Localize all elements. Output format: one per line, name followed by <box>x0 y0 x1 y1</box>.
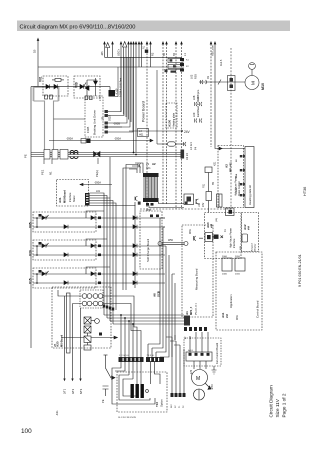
svg-text:-030A: -030A <box>66 137 73 141</box>
svg-text:-K1/-: -K1/- <box>55 410 59 416</box>
motor control A3 dashed box <box>218 146 244 208</box>
svg-text:0V: 0V <box>175 405 177 408</box>
svg-text:2016: 2016 <box>235 256 241 258</box>
svg-text:2B: 2B <box>53 344 57 347</box>
fan control board dashed box <box>184 338 221 366</box>
relay contact K1 <box>168 58 183 62</box>
svg-text:PE1: PE1 <box>41 169 45 175</box>
soft charge cable <box>158 242 162 246</box>
ribbon cable W30 <box>143 173 159 177</box>
svg-text:X1: X1 <box>224 228 227 232</box>
wires A31 to nest verticals <box>90 193 136 324</box>
rectifier V01 dashed box <box>43 76 68 96</box>
wires relay row1 <box>58 290 137 357</box>
svg-text:F01: F01 <box>203 183 206 188</box>
svg-text:L70: L70 <box>98 96 102 101</box>
svg-text:X2 24: X2 24 <box>185 153 189 160</box>
svg-text:-030A: -030A <box>94 181 101 185</box>
hollow arrowheads <box>106 43 110 48</box>
svg-text:A10: A10 <box>206 222 210 228</box>
control board dashed box <box>216 252 262 330</box>
relay pin marks <box>165 70 177 73</box>
relay K10 contacts dashed box <box>80 290 103 308</box>
svg-text:Size 11V: Size 11V <box>275 398 280 417</box>
gray bus trace <box>34 87 59 101</box>
svg-text:24V: 24V <box>184 130 191 134</box>
svg-text:B6A: B6A <box>235 173 238 178</box>
svg-text:24V: 24V <box>202 202 205 207</box>
svg-text:###: ### <box>226 313 229 318</box>
svg-text:Interface: Interface <box>233 238 236 248</box>
svg-text:-E70: -E70 <box>190 369 193 375</box>
svg-text:Earthfault 9' 2300: Earthfault 9' 2300 <box>196 96 200 117</box>
svg-text:B5: B5 <box>212 181 215 185</box>
svg-text:A100: A100 <box>168 119 172 127</box>
PE stub 3 <box>97 158 99 164</box>
plug pair on motor line <box>201 80 207 84</box>
terminal strip X1 <box>119 357 144 362</box>
terminal labels bottom left <box>63 388 84 394</box>
svg-text:W01: W01 <box>189 228 192 234</box>
svg-text:Board: Board <box>73 195 76 202</box>
wire 24V <box>129 130 182 132</box>
thermal switch above motor <box>249 63 256 70</box>
svg-text:A7: A7 <box>184 336 187 339</box>
relay block K01 <box>205 167 212 173</box>
wires ribbon bottom to connector <box>149 202 184 208</box>
svg-text:24V: 24V <box>171 404 173 408</box>
thyristor in V09 <box>80 84 84 88</box>
plug row X70 <box>171 393 186 397</box>
svg-text:K1: K1 <box>186 60 189 62</box>
svg-text:M10: M10 <box>261 83 265 90</box>
bottom labels under T10 <box>118 417 137 419</box>
wire bus y69.5 short <box>164 69 184 71</box>
resistor in V01 <box>55 79 61 82</box>
ground fan <box>212 366 217 374</box>
svg-text:Fan Control Board: Fan Control Board <box>215 342 219 364</box>
svg-text:A30_com: A30_com <box>211 45 215 56</box>
svg-text:Interface: Interface <box>69 192 72 202</box>
connector X13 <box>184 194 194 205</box>
fuse F3 on bus <box>60 150 68 160</box>
thyristor module row V10 <box>33 268 96 288</box>
wire supply x38 with arrow <box>37 41 39 87</box>
transistor in V09 <box>85 80 97 96</box>
wire -030A <box>49 140 150 142</box>
svg-text:B2: B2 <box>163 52 166 56</box>
cable mark slash <box>218 80 221 85</box>
svg-text:SCB: SCB <box>157 291 161 297</box>
svg-text:100: 100 <box>21 428 32 435</box>
bottom section <box>52 287 221 419</box>
fuse F2 on bus <box>52 150 58 160</box>
svg-text:Circuit diagram MX pro 6V90/11: Circuit diagram MX pro 6V90/110...8V160/… <box>20 25 136 31</box>
svg-text:V20: V20 <box>29 250 33 256</box>
wires braking pins to bundle <box>108 57 133 132</box>
aux contact boxes <box>84 317 91 324</box>
svg-text:Control Board: Control Board <box>256 300 260 318</box>
svg-text:K01: K01 <box>214 161 217 166</box>
svg-text:-M70: -M70 <box>211 384 214 390</box>
wire bus y57.3 <box>105 56 182 58</box>
svg-text:V15: V15 <box>29 278 33 284</box>
motor connector X <box>228 76 236 91</box>
fuse F70 <box>217 194 223 207</box>
svg-text:(19): (19) <box>216 218 218 222</box>
svg-text:W50: W50 <box>168 239 174 242</box>
row output pins <box>98 215 159 285</box>
connect rows to bundle <box>160 218 175 283</box>
svg-text:PE: PE <box>101 399 105 403</box>
svg-text:R1: R1 <box>143 45 146 49</box>
svg-text:T10: T10 <box>155 401 159 407</box>
plug pair right of X13 <box>196 199 199 204</box>
plug pair A2 <box>138 164 141 168</box>
option slot 2 <box>235 258 245 271</box>
svg-text:M: M <box>196 376 200 382</box>
svg-text:Soft Charge Board: Soft Charge Board <box>146 238 150 262</box>
connector plugs mid right x197 y120 <box>195 119 203 123</box>
transformer T10 dashed box <box>117 372 167 412</box>
wire -030A upper <box>80 184 112 186</box>
svg-text:03: 03 <box>206 76 210 79</box>
wires into fan connector <box>190 332 208 352</box>
svg-text:9.02B: 9.02B <box>87 126 90 133</box>
fuse F1 on bus <box>44 150 50 160</box>
soft charge board A50 dashed box <box>140 211 162 269</box>
top wire into A3 <box>215 147 245 149</box>
svg-text:1B: 1B <box>33 49 37 53</box>
svg-text:Power Board: Power Board <box>142 101 146 122</box>
relay contact circles <box>82 294 87 299</box>
fan impeller circle <box>194 389 205 400</box>
wire top arrow verticals dashed <box>147 44 211 209</box>
svg-text:F4: F4 <box>194 146 198 150</box>
svg-text:A31: A31 <box>58 197 62 203</box>
node PE left margin <box>24 154 28 158</box>
connector on measuring board top <box>194 236 204 241</box>
wire channel to braking unit <box>54 118 86 120</box>
svg-text:V05: V05 <box>29 222 33 228</box>
transformer loop wiring <box>112 362 160 404</box>
row left link verticals <box>36 218 38 283</box>
svg-text:A2: A2 <box>152 162 156 166</box>
fan connector block <box>186 352 212 361</box>
bus connector to measuring board <box>184 316 190 326</box>
relay coil K70 <box>156 70 158 144</box>
plug pair X27 <box>135 197 138 207</box>
wire with arrow to T10 <box>62 337 114 339</box>
contactor switch symbol <box>106 355 112 378</box>
fuse F01 tall <box>206 192 212 201</box>
svg-text:L1: L1 <box>183 53 187 56</box>
wire K01 to fuse <box>208 173 210 213</box>
relay contact K2 <box>168 64 183 68</box>
wires ribbon top corners <box>129 163 143 173</box>
rotated pin labels KTY <box>102 78 123 121</box>
svg-text:1 2 3 4 5 6: 1 2 3 4 5 6 <box>119 355 129 357</box>
nest horizontal wires to measuring board <box>104 315 184 324</box>
tiny top labels <box>100 45 215 68</box>
svg-text:2006: 2006 <box>222 256 228 258</box>
measuring board A1 dashed box <box>182 225 213 317</box>
svg-text:6/T3: 6/T3 <box>79 388 83 394</box>
connector strip on A30 <box>67 293 71 353</box>
svg-text:PE(L): PE(L) <box>95 170 99 177</box>
wire corners from plugs down through rows <box>123 165 138 291</box>
svg-text:Heating plate: Heating plate <box>173 112 176 127</box>
svg-text:R2: R2 <box>151 52 155 56</box>
svg-text:T2: T2 <box>183 405 185 408</box>
component in gray channel <box>45 95 48 99</box>
svg-text:S02B: S02B <box>109 115 112 121</box>
PE stub 1 <box>43 159 45 164</box>
PE stub 2 <box>51 159 53 164</box>
fan motor M70 <box>192 370 208 386</box>
terminal strip X2 <box>146 357 164 362</box>
wire L1 supply left long vertical <box>30 87 32 348</box>
svg-text:B6B: B6B <box>236 187 238 192</box>
main 3-phase bus triple line <box>31 153 181 157</box>
svg-text:Application: Application <box>229 294 233 308</box>
svg-text:2006: 2006 <box>222 274 228 276</box>
wire top arrow verticals solid <box>104 44 106 57</box>
svg-text:W01: W01 <box>236 314 239 320</box>
svg-text:L02: L02 <box>190 74 194 79</box>
svg-text:-X109: -X109 <box>116 88 119 95</box>
svg-text:R03: R03 <box>194 74 198 79</box>
svg-text:L01: L01 <box>96 190 101 193</box>
interface board A31 dashed box <box>57 180 89 207</box>
svg-text:A12: A12 <box>243 224 247 230</box>
svg-text:W30: W30 <box>146 209 152 212</box>
bus end connector block <box>181 150 185 159</box>
thyristor module row V20 <box>33 212 96 232</box>
motor M10 <box>245 76 259 90</box>
measuring board bottom pins <box>184 327 207 331</box>
relay contact stack K1 <box>84 336 91 343</box>
diode D2 in V01 <box>54 84 58 88</box>
svg-text:MP1_#: MP1_# <box>189 306 193 315</box>
wire -030B <box>105 126 122 128</box>
strip feed verticals <box>121 315 133 357</box>
wire corner to L70 <box>109 87 111 90</box>
svg-text:T1: T1 <box>179 405 181 408</box>
arrowheads top <box>37 38 217 45</box>
keypad A12 dashed box <box>242 213 259 252</box>
svg-text:MP_#01: MP_#01 <box>229 162 233 172</box>
relay L4 H01 box <box>138 129 149 137</box>
svg-text:PE: PE <box>24 154 28 158</box>
svg-text:A1: A1 <box>185 311 189 315</box>
svg-text:Measuring Board: Measuring Board <box>195 268 199 290</box>
svg-text:HT36: HT36 <box>303 187 307 196</box>
pins on x181.5 <box>145 50 184 72</box>
svg-text:Option: Option <box>160 399 164 407</box>
svg-text:SK1: SK1 <box>146 167 151 170</box>
svg-text:2/T1: 2/T1 <box>63 388 67 394</box>
svg-text:23: 23 <box>146 162 149 166</box>
rectifier V09 dashed box <box>74 76 100 98</box>
svg-text:Display: Display <box>255 243 257 251</box>
braking connector pins <box>105 110 108 134</box>
connector on -030A wire <box>81 139 86 144</box>
svg-text:Braking Unit Driver: Braking Unit Driver <box>93 110 97 135</box>
right verticals to plug row <box>172 337 184 393</box>
power board dashed outline <box>24 48 266 209</box>
svg-text:Circuit Diagram: Circuit Diagram <box>269 385 274 417</box>
heating plate kit bar <box>245 147 254 208</box>
vertical bundle right of rows <box>160 218 175 340</box>
thyristor module row V15 <box>33 240 96 260</box>
svg-text:9 P01 030 EN-21/01: 9 P01 030 EN-21/01 <box>298 254 302 287</box>
svg-text:L09: L09 <box>192 112 196 117</box>
svg-text:(P)+(L1,L1'): (P)+(L1,L1') <box>196 303 198 315</box>
diode pair right row1 <box>133 216 137 220</box>
svg-text:Keypad: Keypad <box>252 243 254 251</box>
svg-text:Heating plate kit: Heating plate kit <box>248 185 252 205</box>
svg-text:A3: A3 <box>225 164 229 168</box>
relay block L70 <box>109 90 116 97</box>
wire main bus y64.5 <box>38 66 182 68</box>
svg-text:B6: B6 <box>236 159 238 162</box>
svg-text:UDC+: UDC+ <box>117 48 121 56</box>
braking unit driver dashed box <box>85 96 103 137</box>
connector X31 hatched <box>85 193 90 206</box>
svg-text:MX-Board: MX-Board <box>60 334 64 347</box>
svg-text:MXI-Board: MXI-Board <box>63 190 67 203</box>
choke L1 on bus <box>70 151 78 159</box>
wire bus tap down x110 <box>109 157 111 198</box>
row gate bends <box>86 211 110 274</box>
svg-text:4x1.5: 4x1.5 <box>219 59 223 66</box>
svg-text:L03: L03 <box>198 202 201 207</box>
lower-left section <box>29 152 223 340</box>
motor feed line <box>199 81 245 83</box>
label -K1 <box>55 410 59 416</box>
svg-text:V01: V01 <box>39 76 43 82</box>
svg-text:9.02B 4.1101 Test: 9.02B 4.1101 Test <box>120 78 123 97</box>
svg-text:###: ### <box>211 223 214 228</box>
svg-text:K2: K2 <box>186 66 189 68</box>
svg-text:L08: L08 <box>192 95 196 100</box>
svg-text:-030B: -030B <box>113 122 120 126</box>
svg-text:N1: N1 <box>49 171 53 175</box>
svg-text:-W1: -W1 <box>100 51 104 56</box>
wires soft-charge bundle into strip X2 <box>148 344 156 357</box>
diode D3 in V09 <box>94 81 98 85</box>
option slot 1 <box>222 258 232 271</box>
X9 connector A3 to A10 <box>226 208 235 216</box>
wire phase through V01 <box>31 86 110 88</box>
svg-text:-030A: -030A <box>114 137 121 141</box>
diode D1 in V01 <box>46 84 50 88</box>
strip pin labels <box>119 355 155 357</box>
soft charge + measuring + control section <box>140 146 262 340</box>
transformer windings <box>131 384 144 398</box>
svg-text:L7B: L7B <box>102 116 105 121</box>
wires relay row2 <box>73 304 142 358</box>
svg-text:V09: V09 <box>75 82 79 88</box>
A30 MX board dashed box <box>52 287 111 348</box>
interface A10 dashed box <box>205 213 242 259</box>
left verticals to bottom terminals <box>65 296 81 381</box>
heatsink A100 label box <box>166 103 177 128</box>
svg-text:H01: H01 <box>139 134 144 137</box>
varistor pair on bus <box>94 152 101 157</box>
svg-text:2016: 2016 <box>235 274 241 276</box>
svg-text:B3: B3 <box>173 52 176 56</box>
svg-text:1/L1 2/L2 3/L3 N PE: 1/L1 2/L2 3/L3 N PE <box>118 417 137 419</box>
title bar <box>17 21 290 32</box>
svg-text:M: M <box>251 81 256 85</box>
svg-text:Page 1 of 2: Page 1 of 2 <box>282 393 287 417</box>
wires fan connector to motor <box>194 361 206 369</box>
svg-text:A11: A11 <box>221 312 225 318</box>
svg-text:L4 1x1: L4 1x1 <box>189 142 193 150</box>
svg-text:4/T2: 4/T2 <box>71 388 75 394</box>
svg-text:###: ### <box>248 225 251 230</box>
connector plugs mid right x197 y103 <box>195 102 203 106</box>
